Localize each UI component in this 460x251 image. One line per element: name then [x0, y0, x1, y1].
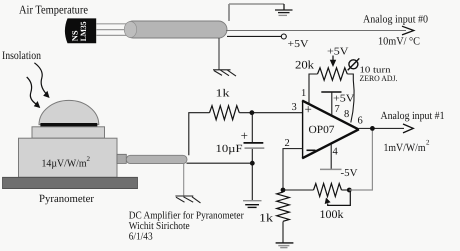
- svg-text:Wichit Sirichote: Wichit Sirichote: [129, 221, 190, 232]
- junction node 100k right: [347, 188, 352, 193]
- svg-text:3: 3: [292, 102, 297, 113]
- 100k wiper arrow: [325, 190, 351, 205]
- wire feedback to output (gray): [349, 128, 372, 190]
- pyranometer dome: [39, 100, 99, 124]
- svg-text:+5V: +5V: [333, 93, 355, 104]
- svg-text:1k: 1k: [216, 88, 231, 100]
- svg-text:+: +: [305, 102, 312, 117]
- insolation arrow 2: [27, 77, 41, 108]
- pyranometer cable: [126, 155, 187, 163]
- svg-text:1: 1: [301, 88, 306, 99]
- svg-text:Insolation: Insolation: [2, 50, 41, 62]
- svg-text:100k: 100k: [320, 209, 344, 221]
- wire junction down to capacitor: [251, 113, 253, 143]
- wire 1k to ground: [282, 222, 284, 243]
- wire pyranometer signal- to cap node: [187, 162, 253, 164]
- wire cylinder to top ground: [228, 4, 230, 21]
- potentiometer R4 100k: [314, 184, 342, 197]
- pyranometer collar: [32, 127, 105, 138]
- resistor R1 1k horizontal: [210, 106, 240, 120]
- terminal +5V open circle: [281, 34, 286, 39]
- LM35 leads: [96, 24, 127, 36]
- svg-text:+5V: +5V: [327, 46, 349, 57]
- svg-text:20k: 20k: [295, 60, 314, 72]
- resistor R3 1k vertical: [277, 192, 290, 221]
- junction node cap bottom: [250, 161, 255, 166]
- wire capacitor down to ground: [251, 149, 253, 200]
- wire 1k to pin3: [239, 112, 302, 114]
- junction node output: [370, 126, 375, 131]
- svg-text:Analog input #1: Analog input #1: [381, 110, 445, 122]
- wire analog input #0 (gray): [226, 30, 406, 32]
- wire feedback node to 100k: [283, 189, 314, 191]
- arrowhead analog input #1: [403, 124, 413, 133]
- wire 100k right lead: [342, 189, 350, 191]
- potentiometer R2 20k: [318, 68, 348, 80]
- svg-text:10mV/ °C: 10mV/ °C: [378, 36, 420, 48]
- op-amp U1 OP07 triangle: [302, 100, 359, 158]
- svg-text:DC Amplifier for Pyranometer: DC Amplifier for Pyranometer: [129, 211, 244, 222]
- wire pot right to pin 8: [347, 74, 354, 123]
- ground G5 (below 1k): [276, 243, 294, 248]
- wire pin1 up to pot left: [309, 74, 318, 104]
- insolation arrow 1: [34, 63, 49, 98]
- svg-text:4: 4: [333, 146, 339, 157]
- pyranometer dome black strip: [40, 123, 97, 127]
- svg-text:7: 7: [335, 104, 340, 115]
- svg-text:Pyranometer: Pyranometer: [39, 193, 94, 205]
- svg-text:Analog input #0: Analog input #0: [363, 13, 428, 25]
- +5V rail bar (pin 7): [321, 91, 341, 93]
- -5V rail bar: [320, 168, 342, 170]
- pyranometer base plate: [3, 177, 138, 188]
- wire pyranometer signal+ up to 1k: [189, 113, 210, 156]
- svg-text:ZERO ADJ.: ZERO ADJ.: [360, 74, 398, 83]
- capacitor C1 10uF: [244, 143, 265, 148]
- svg-text:2: 2: [426, 139, 430, 147]
- svg-text:2: 2: [87, 155, 91, 163]
- trimmer screw symbol: [348, 58, 360, 70]
- junction node at cap top: [250, 110, 255, 115]
- ground G1 (top right): [275, 4, 293, 15]
- svg-text:10µF: 10µF: [216, 143, 243, 155]
- svg-text:14µV/W/m: 14µV/W/m: [42, 158, 87, 169]
- svg-text:1mV/W/m: 1mV/W/m: [384, 142, 426, 154]
- wire pin 4 down to -5V: [330, 144, 332, 169]
- svg-text:+5V: +5V: [288, 39, 309, 50]
- chassis ground G2: [213, 70, 236, 76]
- ground G4 (below cap): [243, 201, 262, 208]
- pyranometer box: [19, 138, 118, 177]
- transistor U2 LM35 sensor body: [65, 18, 96, 43]
- wire pin 7 to +5V: [331, 92, 333, 116]
- svg-text:1k: 1k: [259, 213, 273, 225]
- wire chassis ground from cylinder: [218, 38, 220, 70]
- arrowhead analog input #0: [402, 26, 414, 35]
- svg-text:LM35: LM35: [79, 21, 88, 41]
- pot wiper arrow: [330, 56, 336, 68]
- op-amp - input marking: [307, 149, 316, 151]
- junction node feedback: [281, 188, 286, 193]
- wire cable shield to chassis ground: [183, 164, 185, 196]
- pyranometer connector: [117, 154, 126, 163]
- svg-text:6/1/43: 6/1/43: [129, 232, 153, 243]
- svg-text:-5V: -5V: [341, 168, 358, 179]
- wire pin 2 to feedback node: [283, 149, 302, 190]
- svg-text:10 turn: 10 turn: [360, 64, 392, 74]
- svg-text:6: 6: [358, 116, 363, 127]
- chassis ground G3: [175, 196, 200, 203]
- wire +5V supply (black): [227, 35, 281, 37]
- svg-text:OP07: OP07: [309, 124, 336, 136]
- wire output to arrow: [359, 127, 404, 129]
- svg-text:8: 8: [344, 109, 349, 120]
- svg-text:Air Temperature: Air Temperature: [19, 3, 88, 17]
- probe cylinder: [124, 21, 227, 38]
- svg-text:+: +: [241, 128, 248, 143]
- wire top horizontal to ground: [229, 3, 284, 5]
- svg-text:2: 2: [285, 138, 290, 149]
